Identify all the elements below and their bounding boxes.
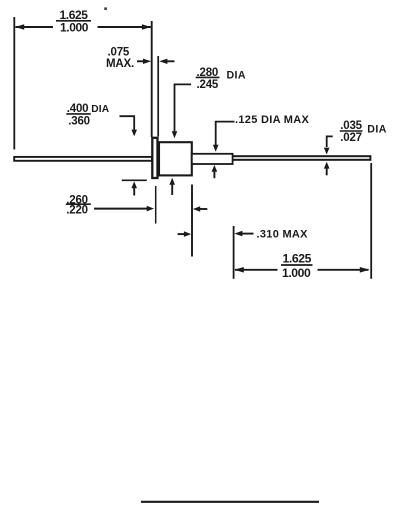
fraction bar .400/.360 (66, 113, 91, 115)
right lead wire (232, 156, 370, 160)
svg-text:DIA: DIA (227, 70, 246, 82)
arrow under body pointing up at body bottom (171, 184, 173, 195)
stray dot (104, 7, 107, 10)
stub cylinder (192, 154, 233, 164)
flange thickness extension (body face) (157, 56, 159, 137)
dimension bottom: line right segment (318, 269, 369, 271)
dimension top lead length: extension line right (flange face) (151, 21, 153, 137)
label 1.625/1.000 top (59, 8, 88, 35)
svg-text:.360: .360 (68, 116, 90, 128)
dimension bottom lead length: line left segment (235, 269, 278, 271)
leader for stub diameter (216, 122, 235, 146)
flange bottom projection tick (122, 179, 147, 181)
svg-text:.027: .027 (340, 132, 362, 144)
svg-text:DIA: DIA (367, 124, 386, 136)
label .400 DIA/.360 (67, 103, 110, 128)
dimension top lead length: extension line left (wire end) (13, 17, 15, 150)
leader bracket for wire diameter (327, 136, 333, 147)
svg-text:1.000: 1.000 (282, 266, 311, 280)
svg-text:MAX.: MAX. (106, 58, 134, 70)
label 1.625/1.000 bottom (282, 251, 312, 280)
flange thickness arrow left-pointing (166, 60, 175, 62)
arrow under wire pointing up at wire bottom (326, 168, 328, 175)
label .125 DIA MAX (235, 114, 309, 126)
arrow right-pointing at body face (for .310) (178, 233, 185, 235)
arrow left-pointing at body face (200, 208, 208, 210)
svg-text:.245: .245 (197, 79, 219, 91)
leader for flange diameter (120, 116, 135, 130)
dimension .310 MAX arrow left-pointing at stub end (242, 233, 254, 235)
leader for body diameter (175, 84, 192, 132)
body (159, 142, 192, 175)
left lead wire (14, 157, 152, 161)
label .310 MAX (257, 228, 309, 240)
label .260/.220 (66, 195, 88, 217)
dimension top: line left segment (16, 26, 54, 28)
svg-text:.125 DIA MAX: .125 DIA MAX (235, 114, 309, 126)
flange (152, 138, 157, 178)
fraction bar bottom (281, 264, 313, 266)
svg-text:DIA: DIA (91, 104, 110, 115)
bottom rule (141, 501, 319, 503)
arrow under stub pointing up at stub bottom (213, 171, 215, 178)
arrow pointing up at flange bottom line (133, 187, 135, 196)
svg-text:1.000: 1.000 (60, 21, 89, 35)
extension line body right face (191, 185, 193, 257)
svg-text:.075: .075 (108, 46, 130, 58)
svg-text:.310 MAX: .310 MAX (257, 228, 309, 240)
fraction bar .260/.220 (66, 203, 91, 205)
fraction bar .280/.245 (196, 76, 220, 78)
fraction bar .035/.027 (340, 130, 363, 132)
extension line wire right end (370, 163, 372, 279)
dimension top: left arrowhead (15, 24, 24, 29)
extension line stub end (233, 226, 235, 279)
fraction bar top (56, 20, 91, 22)
extension line flange right projection (155, 186, 157, 224)
svg-text:.220: .220 (66, 205, 88, 217)
dimension .260 line with right arrowhead (94, 208, 148, 210)
dimension top: right arrowhead (98, 26, 151, 28)
label .280/.245 DIA (197, 67, 246, 91)
label .075 MAX (106, 46, 134, 69)
svg-text:1.625: 1.625 (283, 251, 312, 265)
label .035/.027 DIA (340, 120, 386, 144)
flange thickness arrow right-pointing (137, 60, 145, 62)
svg-text:.400: .400 (67, 103, 89, 115)
